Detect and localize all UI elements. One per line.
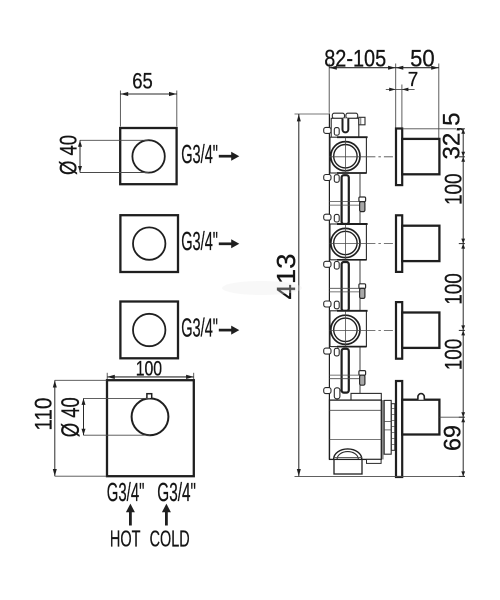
body right edge below V1 [359,173,361,224]
dim O40 K1 dimension line [79,140,81,172]
mounting lug V2 lower [324,261,331,267]
outlet arch inner [337,452,358,460]
knob handle 3 [402,313,439,348]
dim 65 arrow left [120,92,128,96]
dim 110 arrow top [53,380,57,387]
escutcheon plate knob 3 [396,302,402,359]
body joint lines below V2 [329,287,360,289]
dim 7 arrow left [389,88,396,92]
dim 100 dimension line [107,376,194,378]
dim 82-105 arrow right [388,66,396,70]
body joint lines below V3 [329,374,360,376]
thermostat knob circle [132,398,169,435]
valve block V1 bottom plate line [337,172,366,174]
dim 7 arrow right [402,88,409,92]
mounting lug V1 upper clip [334,128,339,136]
knob circle K3 [133,314,165,346]
port arrow K3 [219,329,232,332]
knob 4 temperature button [418,394,424,400]
chain extension line plate top [403,128,457,130]
inlet arrow hot [129,512,132,526]
inlet arrow cold [165,512,168,526]
svg-text:G3/4": G3/4" [181,312,218,342]
svg-text:100: 100 [441,173,468,205]
svg-text:G3/4": G3/4" [157,477,196,507]
dim 50 arrow right [431,66,439,70]
dim 82-105 extension line left [328,64,330,113]
valve block V2 [330,224,366,260]
valve cap inner circle V3 [334,318,357,341]
svg-text:HOT: HOT [110,526,141,552]
dim 65 arrow right [169,92,177,96]
dim 110 extension lines [55,379,107,381]
svg-text:COLD: COLD [150,526,190,552]
dim 82-105 arrow left [329,66,337,70]
connecting pipe below V2 [342,262,349,311]
inlet tab A [332,113,344,118]
port arrow K2 [219,242,232,245]
svg-text:G3/4": G3/4" [181,139,218,169]
cartridge body joint lines [384,421,391,423]
mounting lug V3 upper [324,301,331,307]
svg-text:69: 69 [440,425,467,451]
mounting lug V2 lower clip [334,262,339,270]
valve block V3 top plate line [337,310,368,312]
svg-text:82-105: 82-105 [324,46,386,73]
body right edge below V2 [359,260,361,311]
escutcheon plate knob 1 [396,129,402,186]
valve top right tab inner [360,117,362,125]
dim O40 thermostat arrow top [82,398,86,405]
svg-text:65: 65 [132,69,153,94]
dim O40 K1 arrow bottom [78,166,82,173]
dim 413 arrow top [297,114,301,121]
knob handle 4 [402,400,439,435]
escutcheon plate knob 4 [396,381,402,477]
screw boss below V2 [359,284,366,289]
knob handle 2 [402,226,439,261]
mounting lug V1 lower clip [334,175,339,183]
knob circle K1 [132,140,164,172]
inlet tab B [346,113,358,118]
mounting lug V2 upper clip [334,214,339,222]
dim O40 thermostat tangent lines [84,397,151,399]
valve top slot [343,118,349,132]
outlet arch chord line [333,457,362,459]
mounting lug V1 lower [324,175,331,181]
svg-text:110: 110 [31,398,58,431]
thermostat mounting lug clip [334,388,340,399]
chain arrowheads [461,129,465,134]
thermostat body block [330,400,382,459]
valve top block [331,118,359,137]
body joint lines below V1 [329,201,360,203]
thermostat body joint line upper [330,409,382,411]
escutcheon plate knob 2 [396,215,402,272]
dim 110 dimension line [54,380,56,476]
mounting lug V2 upper [324,214,331,220]
svg-text:Ø 40: Ø 40 [56,135,83,175]
dim 413 bottom extension line [295,475,466,477]
dim O40 K1 arrow top [78,140,82,147]
valve V3 horizontal centerline [329,329,366,331]
valve V2 vertical centerline [344,225,346,260]
dim 110 arrow bottom [53,469,57,476]
svg-text:Ø 40: Ø 40 [57,397,85,437]
connecting pipe below V1 [342,175,349,224]
dim shared extension line wall face [395,64,397,129]
port arrow K1 [219,155,232,158]
svg-text:100: 100 [441,273,468,305]
mounting lug V3 lower [324,348,331,354]
svg-text:G3/4": G3/4" [107,477,145,507]
dim 50 arrow left [396,66,404,70]
knob square K2 [120,215,178,272]
knob 4 centerline ext [440,416,464,418]
valve block V1 top plate line [337,136,368,138]
valve V1 vertical centerline [344,138,346,173]
dim line 82-105 and 50 [329,67,439,69]
screw boss below V1 [359,197,366,202]
svg-text:32,5: 32,5 [439,113,466,160]
valve V2 horizontal centerline [329,243,366,245]
valve block V3 bottom plate line [337,346,366,348]
valve block V3 [330,311,366,347]
valve cap inner circle V1 [334,145,357,168]
valve top right tab [359,117,365,125]
dim 100 arrow left [107,375,115,379]
connecting pipe below V3 [342,349,349,393]
valve cap outer circle V2 [331,228,360,257]
svg-text:100: 100 [441,339,468,371]
mounting lug V1 upper [324,127,331,133]
screw boss below V3 [359,371,366,376]
dim O40 thermostat arrow bottom [82,429,86,436]
body back line [328,113,330,459]
dim O40 thermostat dimension line [83,398,85,435]
valve cap inner circle V2 [334,231,357,254]
chain tick marks [459,128,465,130]
valve block V2 top plate line [337,223,368,225]
valve cap outer circle V1 [331,142,360,171]
dim 65 extension lines [119,91,121,127]
cartridge spline teeth [391,408,394,410]
svg-text:7: 7 [408,69,419,91]
thermostat mounting lug [324,388,331,394]
dim 100 arrow right [186,375,194,379]
valve V1 horizontal centerline [329,156,366,158]
cartridge spline shaft [391,404,394,451]
dim 413 arrow bottom [297,469,301,476]
watermark smudge [222,281,302,295]
valve block V2 bottom plate line [337,259,366,261]
valve block V1 [330,137,366,173]
thermostat body joint line lower [330,439,382,441]
svg-text:G3/4": G3/4" [181,226,218,256]
body right edge below V3 [359,347,361,394]
dim 413 dimension line [298,114,300,476]
thermostat knob notch [147,394,152,399]
mounting lug V3 upper clip [334,301,339,309]
dim 7 line [386,88,415,90]
chain dimension line [462,129,464,477]
mounting lug V3 lower clip [334,348,339,356]
valve cap outer circle V3 [331,315,360,344]
outlet spout box [334,459,362,474]
dim 65 dimension line [120,93,176,95]
dim 100 extension lines [106,373,108,380]
dim 7 extension line [401,85,403,129]
dim 50 extension line right [438,64,440,139]
knob circle K2 [133,227,165,259]
valve V3 vertical centerline [344,311,346,346]
thermostat right foot [367,459,382,463]
dim O40 K1 tangent lines [80,139,149,141]
dim 413 top extension line [295,113,331,115]
knob square K1 [120,128,176,184]
knob square K3 [120,302,178,359]
thermostat square [107,380,194,476]
thermostat top step [351,393,381,400]
cartridge face line [382,400,384,459]
outlet arch outer [334,449,362,459]
knob handle 1 [402,139,439,174]
cartridge body [384,400,391,454]
